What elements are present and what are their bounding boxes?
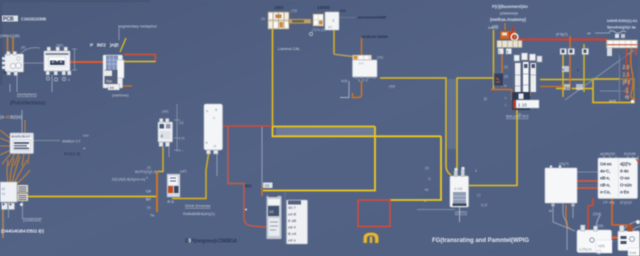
svg-text:(0): (0)	[504, 65, 508, 69]
component F1 fuse assembly	[497, 25, 522, 54]
wire dim bracket relay	[174, 104, 180, 152]
svg-text:+B: +B	[424, 188, 429, 192]
wire yellow vert F3	[583, 44, 585, 92]
wire gray module side	[340, 81, 349, 98]
svg-text:2mA: 2mA	[629, 251, 637, 255]
wire leader 240V	[417, 209, 455, 211]
wire gray node drop	[261, 127, 263, 186]
svg-text:(.05: (.05	[179, 137, 185, 141]
svg-text:P(r)(Basement)4o: P(r)(Basement)4o	[492, 4, 528, 9]
svg-text:eB·e,: eB·e,	[600, 176, 610, 181]
wire box3 drop	[333, 30, 335, 54]
svg-text:5(methA)(G)2 4a: 5(methA)(G)2 4a	[607, 25, 636, 30]
wire red PSU link	[70, 61, 103, 63]
svg-text:(P2: (P2	[623, 80, 631, 86]
wire leader box3 label	[339, 17, 355, 19]
wire loop yellow bottom	[124, 61, 156, 63]
wire orange relay tail	[168, 147, 170, 157]
node label 03 tag	[263, 183, 273, 189]
svg-text:RaBaBdB4(ah)(1): RaBaBdB4(ah)(1)	[183, 211, 215, 216]
svg-text:FG(transrating and PamnteI(WPI: FG(transrating and PamnteI(WPIG	[432, 238, 529, 244]
component J3 top-right strip	[607, 34, 638, 56]
svg-text:a: a	[213, 116, 215, 120]
svg-text:m: m	[504, 84, 507, 88]
wire orange U3 top feed	[361, 38, 363, 57]
svg-text:D9P(mngnese)-CWBIGA: D9P(mngnese)-CWBIGA	[185, 239, 237, 245]
wire orange boxC drop	[566, 205, 571, 229]
svg-text:wt: wt	[587, 32, 591, 36]
svg-text:BAL(4)ETE9: BAL(4)ETE9	[506, 114, 529, 119]
component LGD legend panel	[598, 158, 640, 199]
svg-text:(240V): (240V)	[455, 210, 468, 215]
svg-text:CF mq: CF mq	[603, 201, 614, 205]
wire curved leader box1	[20, 48, 40, 54]
svg-text:8 oB: 8 oB	[288, 218, 297, 223]
wire hook boxA pin	[596, 215, 600, 229]
component U3 orange-fed box	[353, 55, 378, 78]
svg-text:4: 4	[507, 50, 509, 54]
svg-text:BCPO(2)(1.0): BCPO(2)(1.0)	[135, 170, 157, 174]
wire gray drops under box1	[10, 75, 17, 92]
component K1 small relay	[158, 119, 173, 147]
wire tan link	[334, 54, 353, 57]
wire dim bracket box2	[72, 49, 77, 70]
svg-text:(b): (b)	[21, 46, 25, 50]
icon M motor arch	[364, 233, 379, 244]
component M1 relay module	[103, 55, 124, 90]
wire legend ticks	[604, 156, 638, 161]
svg-text:(7)7a (2): (7)7a (2)	[312, 28, 325, 32]
node red frame	[358, 200, 390, 227]
svg-text:Am: Am	[106, 79, 112, 84]
wire red wavy right	[626, 48, 629, 95]
svg-text:ĐO: ĐO	[245, 184, 252, 189]
svg-text:s1: s1	[2, 187, 6, 191]
svg-text:G: G	[626, 91, 629, 95]
component U1 input module	[2, 52, 24, 76]
svg-text:(continued): (continued)	[23, 219, 41, 223]
wire orange fan ctrl-box	[0, 130, 29, 166]
svg-text:(rad/tone): (rad/tone)	[112, 94, 129, 98]
wire orange trio vert	[569, 36, 571, 88]
wire yellow relay drop	[157, 147, 163, 172]
svg-text:44: 44	[110, 85, 115, 90]
wire orange MMU drops	[8, 37, 14, 54]
wire leader top-right	[595, 32, 610, 34]
wire yellow bus2	[273, 127, 442, 137]
svg-text:0): 0)	[625, 95, 630, 100]
svg-text:4o·C,: 4o·C,	[600, 169, 610, 174]
svg-text:(NE): (NE)	[56, 44, 63, 48]
component U4 small box	[325, 12, 339, 30]
svg-text:(-): (-)	[477, 193, 480, 197]
wire yellow fuse-row A	[540, 79, 593, 81]
component U6 right mid box	[545, 165, 577, 207]
wire orange tick top-right	[504, 23, 506, 30]
svg-text:#myFly BLinT: #myFly BLinT	[12, 134, 31, 138]
wire gray tallbox drop2	[216, 154, 218, 176]
svg-text:(42): (42)	[492, 25, 498, 29]
svg-text:(2B): (2B)	[597, 224, 603, 228]
svg-text:ld: ld	[549, 209, 552, 213]
svg-text:1 10: 1 10	[518, 103, 527, 108]
svg-text:PCB: PCB	[3, 17, 14, 23]
svg-text:,o: ,o	[213, 144, 216, 148]
wire tan bottom-left	[2, 208, 4, 238]
node bus-highlight	[276, 128, 374, 136]
svg-text:(s): (s)	[425, 166, 429, 170]
svg-text:(F4)(7): (F4)(7)	[556, 33, 568, 37]
svg-text:o·Eo: o·Eo	[620, 190, 629, 195]
svg-text:(2)4): (2)4)	[593, 212, 602, 216]
wire red panel links	[577, 181, 598, 188]
svg-text:P-7BȻ2(4)A(E: P-7BȻ2(4)A(E	[90, 43, 120, 49]
svg-text:o8 4: o8 4	[288, 225, 297, 230]
svg-text:(a0): (a0)	[162, 110, 168, 114]
svg-text:B44: B44	[565, 86, 573, 91]
component T2 cluster module B	[287, 200, 308, 244]
svg-text:ooo: ooo	[83, 134, 89, 138]
svg-text:(4)9: (4)9	[389, 85, 395, 89]
svg-text:A(4): A(4)	[341, 79, 347, 83]
wire orange legend to boxB	[612, 198, 630, 231]
node top-right text block	[490, 4, 528, 29]
wire yellow branch	[457, 78, 494, 176]
svg-text:and.: and.	[609, 98, 617, 103]
wire gray drops under box2	[51, 75, 53, 92]
wire gray sensor drop	[459, 207, 461, 222]
wire orange node tick	[261, 186, 263, 196]
svg-text:(4): (4)	[504, 75, 508, 79]
wire green segment	[583, 78, 596, 80]
wire leader ctrl label	[33, 140, 60, 142]
svg-text:Tw: Tw	[150, 214, 155, 218]
svg-text:(Putrefactions): (Putrefactions)	[10, 101, 46, 107]
wire orange fuse right	[529, 60, 531, 96]
svg-text:O4·eo: O4·eo	[600, 162, 612, 167]
wire gray panel mid	[577, 184, 598, 186]
svg-text:O: O	[428, 177, 431, 181]
svg-text:ROM AV 6800E: ROM AV 6800E	[362, 34, 388, 39]
component U5 tall box	[204, 104, 223, 154]
svg-text:4: 4	[475, 169, 477, 173]
svg-text:1503: 1503	[274, 5, 284, 10]
svg-text:L: L	[505, 96, 507, 100]
component B2 bottom box B	[597, 220, 640, 256]
wire gray AB link	[611, 240, 620, 242]
svg-text:_assessment/diaF: _assessment/diaF	[355, 15, 387, 20]
svg-text:b4045 E302(1) A1: b4045 E302(1) A1	[607, 18, 638, 23]
wire yellow bus1	[273, 126, 376, 128]
svg-text:a.05(cm: a.05(cm	[579, 248, 592, 252]
component U2 display unit	[44, 47, 71, 82]
wire orange fuse feed	[491, 48, 512, 100]
svg-text:(C)(1)2: (C)(1)2	[620, 201, 632, 205]
component J2 mini block	[313, 14, 324, 26]
svg-text:E(4)4B: E(4)4B	[624, 152, 636, 156]
wire loop red top	[124, 55, 156, 62]
svg-text:(workplace): (workplace)	[17, 93, 37, 97]
component S1 sensor box	[450, 167, 469, 207]
wire gray cluster spine	[284, 192, 286, 244]
node dot	[245, 209, 247, 211]
svg-text:(4-4EB(0)4): (4-4EB(0)4)	[0, 115, 22, 120]
svg-text:(y)|: (y)|	[179, 121, 184, 125]
svg-text:ö·4o: ö·4o	[620, 169, 629, 174]
svg-text:10: 10	[269, 209, 274, 214]
svg-text:o4 B: o4 B	[288, 212, 297, 217]
component F2 fuse strips	[512, 53, 542, 117]
component T1 cluster module A	[267, 193, 282, 239]
svg-text:AWBUI CY: AWBUI CY	[62, 140, 81, 144]
svg-text:.03: .03	[264, 184, 269, 188]
svg-text:9, O G: 9, O G	[358, 79, 368, 83]
wire gray ctrl feeds	[21, 110, 23, 133]
svg-text:o(4): o(4)	[598, 244, 605, 248]
wire orange row link	[540, 86, 570, 88]
node right text block 2	[607, 18, 638, 30]
wire yellow F-drop	[493, 30, 495, 90]
wire leader G	[600, 90, 624, 92]
svg-text:(wP): (wP)	[180, 170, 187, 174]
svg-text:4(2)ºo: 4(2)ºo	[620, 162, 631, 167]
wire yellow J1 drop	[272, 29, 274, 127]
node yellow junction box	[593, 79, 634, 103]
svg-text:2,5: 2,5	[623, 73, 630, 79]
component F3 fuse trio	[560, 49, 589, 91]
svg-text:o·Co,: o·Co,	[600, 190, 610, 195]
component D1 mini dark box	[494, 73, 504, 86]
wire red through strip	[607, 45, 636, 57]
wire gray boxC top link	[577, 171, 600, 173]
svg-text:KG: KG	[340, 9, 346, 13]
wire leader diagonal F	[565, 50, 634, 100]
svg-text:Lamma CAL: Lamma CAL	[278, 46, 301, 51]
wire orange riser K	[156, 171, 158, 212]
svg-text:(x): (x)	[147, 166, 151, 170]
wire gray bottom-left drops	[9, 200, 43, 219]
svg-text:L: L	[505, 103, 507, 107]
wire orange module stub	[122, 85, 132, 87]
svg-text:(14): (14)	[377, 56, 383, 60]
svg-text:4: 4	[68, 78, 70, 82]
wire hooks boxB pins	[624, 221, 640, 231]
svg-text:47: 47	[328, 26, 332, 30]
svg-text:(chlorene)s: (chlorene)s	[500, 12, 518, 16]
svg-text:PCkO B: PCkO B	[64, 152, 80, 157]
svg-text:2.0: 2.0	[623, 65, 630, 71]
component B1 bottom box A	[577, 225, 612, 253]
wire yellow fuse-row B	[556, 88, 593, 90]
svg-text:O·oo: O·oo	[620, 176, 630, 181]
svg-text:o4 o: o4 o	[288, 238, 297, 243]
svg-text:D(C)4(0) B(4)(cm-m): D(C)4(0) B(4)(cm-m)	[112, 178, 145, 182]
svg-text:10: 10	[261, 17, 265, 21]
svg-text:segmentary metaphor: segmentary metaphor	[118, 24, 158, 29]
svg-text:(methas.Anatomy): (methas.Anatomy)	[490, 17, 527, 22]
svg-text:(7)9: (7)9	[291, 9, 297, 13]
cable W1 tan jumper	[289, 19, 311, 24]
wire red bus-feed	[222, 125, 272, 127]
wire squiggle top-right	[609, 31, 626, 34]
component A2 lower-left module	[0, 182, 28, 210]
svg-text:R D: R D	[168, 200, 175, 204]
svg-text:C34G5G03M6: C34G5G03M6	[21, 17, 47, 22]
component A1 control box	[10, 133, 34, 154]
wire orange U3 bottom hook	[353, 81, 362, 98]
svg-text:2: 2	[499, 50, 501, 54]
svg-text:4: 4	[146, 176, 148, 180]
node ring small	[309, 32, 312, 35]
svg-text:B/I: B/I	[146, 198, 151, 202]
svg-text:(D44G4GB4 EB11 I(r): (D44G4GB4 EB11 I(r)	[1, 229, 44, 235]
svg-text:cB·o,: cB·o,	[600, 183, 610, 188]
svg-text:14006/: 14006/	[317, 5, 331, 10]
wire orange cable bundle lower	[7, 156, 30, 184]
wire yellow sensor link	[468, 108, 517, 186]
wire yellow vert F2	[562, 53, 564, 97]
component K2 small connector	[167, 174, 180, 204]
node label PCB title	[2, 16, 47, 23]
svg-text:B o4: B o4	[288, 231, 297, 236]
wire yellow riser1	[263, 127, 375, 191]
svg-text:40 7: 40 7	[288, 205, 297, 210]
svg-text:(MMU(2)B): (MMU(2)B)	[0, 33, 20, 38]
wire yellow bottom-left run	[28, 196, 157, 198]
wire link box1-box2	[24, 62, 44, 64]
svg-text:O·o2o: O·o2o	[620, 183, 632, 188]
svg-text:a(r)B(0)0: a(r)B(0)0	[600, 152, 615, 156]
svg-text:0s: 0s	[2, 192, 6, 196]
svg-text:(X)(7): (X)(7)	[559, 162, 569, 166]
svg-text:n n: n n	[359, 62, 364, 66]
svg-text:Dimb Emonaa: Dimb Emonaa	[185, 203, 211, 208]
wire leader module label	[118, 28, 120, 40]
wire gray left of boxA	[563, 192, 567, 250]
wire red main top	[515, 39, 607, 41]
component J1 terminal block	[268, 12, 289, 29]
wire orange AB link	[611, 236, 620, 238]
wire gray boxC pin drops	[553, 207, 575, 231]
svg-text:4 mB: 4 mB	[454, 187, 463, 191]
svg-text:I(-)2: I(-)2	[481, 203, 487, 207]
wire yellow riser2	[390, 136, 441, 200]
wire orange ctrl feed	[24, 120, 26, 133]
component P1 right column panel	[619, 48, 638, 103]
svg-text:(x): (x)	[147, 206, 151, 210]
svg-text:o→: o→	[179, 149, 184, 153]
wire yellow module diag	[120, 38, 126, 52]
wire yellow U3 out	[380, 78, 451, 175]
wire red branch down	[228, 126, 266, 227]
wire orange wavy right	[631, 48, 636, 100]
node twin-wire highlight	[448, 79, 457, 149]
wire red legend to boxA	[588, 198, 593, 230]
wire yellow tallbox drop	[172, 154, 209, 199]
